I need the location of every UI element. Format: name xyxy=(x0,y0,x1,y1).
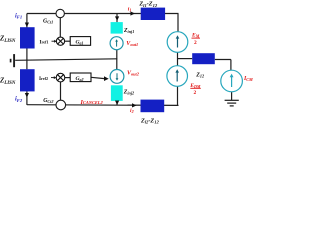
wire source V_out1 to source V_out2 xyxy=(116,50,118,70)
svg-text:GCt2: GCt2 xyxy=(43,98,53,104)
source E_M/2 (top noise source) xyxy=(167,32,188,53)
multiplier X2 xyxy=(56,73,65,82)
amp G_a2 box xyxy=(70,73,91,82)
arrow i_F2 out of Z_LISN2 xyxy=(25,93,29,98)
wire LISN1 bottom to LISN2 top xyxy=(26,48,28,69)
impedance Z_inj1 xyxy=(111,22,123,33)
svg-text:Vout1: Vout1 xyxy=(126,41,138,47)
wire multiplier2 down to probe2 xyxy=(60,82,62,100)
impedance Z_inj2 xyxy=(111,85,123,101)
wire probe1 to multiplier1 xyxy=(59,18,61,38)
svg-text:2: 2 xyxy=(194,40,197,46)
wire LISN2 bottom corner xyxy=(26,91,28,105)
wire right drop to source E1 xyxy=(177,14,179,33)
impedance Z_LISN2 xyxy=(20,69,35,91)
battery E (DC source) xyxy=(11,54,15,67)
svg-text:Vout2: Vout2 xyxy=(127,71,140,77)
wire amp G_a2 output to source V_out2 xyxy=(91,77,105,78)
multiplier X1 xyxy=(56,37,64,45)
arrowhead into Z_inj1 xyxy=(115,16,119,21)
svg-text:Zinj2: Zinj2 xyxy=(123,89,134,95)
wire source E2 to bottom rail xyxy=(177,86,179,105)
arrowhead i2 on bottom rail xyxy=(132,103,137,107)
wire bottom rail node 2 xyxy=(27,104,179,107)
wire mid rail from battery to injection node xyxy=(15,59,117,61)
wire Z_12 to corner xyxy=(215,59,231,61)
svg-text:ICM: ICM xyxy=(243,76,253,82)
probe circle G_Ct1 xyxy=(56,9,64,17)
wire injection branch bottom xyxy=(116,101,118,105)
ground xyxy=(225,100,239,106)
svg-text:Ga2: Ga2 xyxy=(76,76,84,82)
impedance Z_l2-Z_12 xyxy=(141,100,165,113)
source V_out1 xyxy=(110,37,123,50)
arrowhead i1 on top rail xyxy=(130,11,135,15)
svg-text:2: 2 xyxy=(194,90,197,96)
arrowhead of G_a2 output xyxy=(104,76,109,81)
amp G_a1 box xyxy=(70,37,90,46)
svg-text:Ga1: Ga1 xyxy=(76,40,84,46)
wire multiplier1 to amp box G_a1 xyxy=(65,40,71,42)
impedance Z_LISN1 xyxy=(20,27,35,48)
source E_DM/2 (bottom noise source) xyxy=(167,66,188,87)
svg-text:GCt1: GCt1 xyxy=(43,19,53,25)
source I_CM xyxy=(221,70,243,92)
wire source I_CM to ground xyxy=(231,92,233,100)
svg-text:Z12: Z12 xyxy=(195,72,204,78)
svg-text:i2: i2 xyxy=(130,108,134,114)
arrowhead into bottom rail (i_CANCEL2) xyxy=(115,101,119,106)
wire LISN1 branch top xyxy=(26,14,28,28)
source V_out2 xyxy=(110,70,124,84)
wire top rail node 1 xyxy=(27,13,179,15)
wire corner down to source I_CM xyxy=(230,60,232,71)
wire multiplier2 to amp box G_a2 xyxy=(65,77,70,79)
svg-text:Zinj1: Zinj1 xyxy=(123,28,134,34)
wire branch node to impedance Z_12 xyxy=(178,58,193,60)
wire injection branch top xyxy=(116,14,118,23)
probe circle G_Ct2 xyxy=(56,100,66,110)
arrow i_F1 into Z_LISN1 xyxy=(25,23,29,28)
svg-text:ICANCEL2: ICANCEL2 xyxy=(80,99,104,106)
impedance Z_l1-Z_12 xyxy=(141,8,165,20)
impedance Z_12 xyxy=(192,53,215,64)
wire source E1 to node between sources xyxy=(177,52,179,65)
